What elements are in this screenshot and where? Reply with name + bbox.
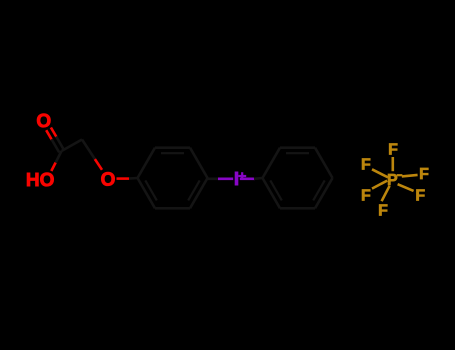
C1-OH bond [51,151,61,171]
P-F bond (lower right) [398,184,414,191]
svg-text:I: I [234,169,239,190]
iodine to ring2 bond [240,177,263,180]
P-F bond (lower left) [372,181,387,189]
C2-O3 ether bond [82,140,102,170]
C1-C2 bond [62,140,83,152]
svg-text:O: O [36,111,51,132]
benzene ring 1 (4-substituted phenoxy) [138,148,208,209]
ring1 to iodine bond [208,178,234,181]
C1=O1 double bond [46,128,64,153]
svg-text:F: F [378,202,388,219]
svg-text:F: F [415,187,425,204]
P-F bond (right) [402,175,418,177]
iodonium plus charge [238,172,246,180]
P-F bond (axial bottom) [382,186,390,201]
phosphorus minus charge [397,174,403,176]
svg-text:F: F [388,142,398,159]
benzene ring 2 (phenyl) [263,148,333,209]
svg-text:HO: HO [26,170,55,191]
svg-text:F: F [361,156,371,173]
svg-text:F: F [361,188,371,205]
svg-text:O: O [101,170,116,191]
P-F bond (axial top) [391,157,394,171]
O3 to ring bond [117,177,138,180]
P-F bond (upper left) [372,169,388,177]
svg-text:F: F [419,166,429,183]
